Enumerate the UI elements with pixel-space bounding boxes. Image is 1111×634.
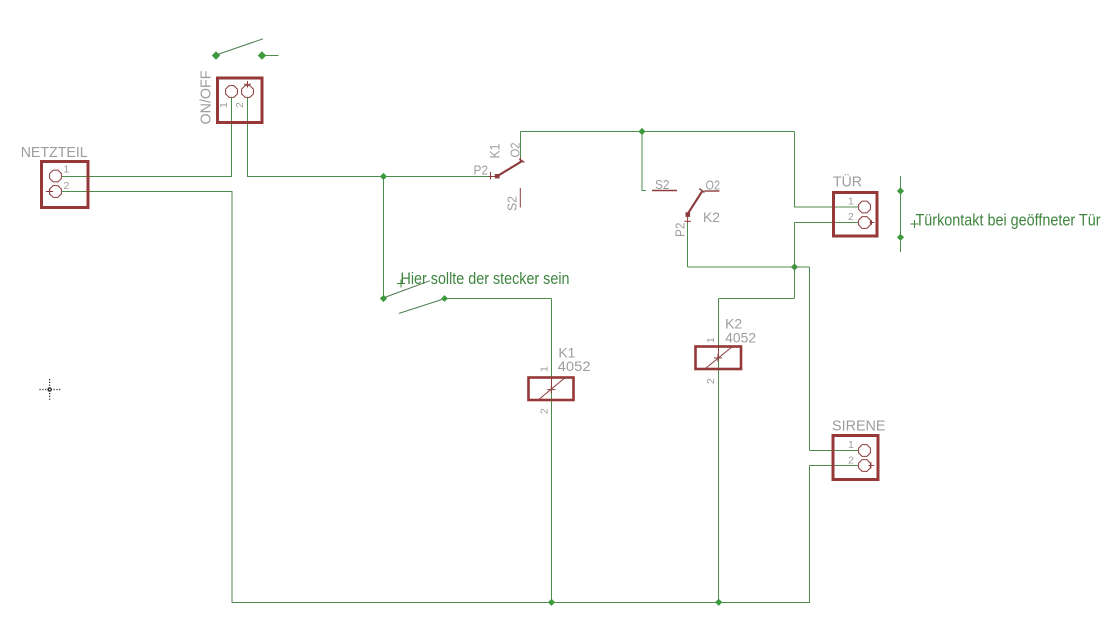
relay coil K1 pin stub bbox=[550, 378, 552, 391]
relay contact K2 pole stub bbox=[687, 217, 689, 224]
svg-text:K1: K1 bbox=[487, 143, 503, 158]
relay contact K1 hinge bbox=[495, 174, 500, 178]
wire into SIRENE pin1 bbox=[810, 450, 859, 452]
pin 2 cross mark bbox=[247, 81, 249, 88]
svg-text:2: 2 bbox=[848, 211, 854, 223]
relay coil K1 box bbox=[529, 378, 574, 401]
wire top net horizontal bbox=[521, 131, 795, 133]
pin 2 of ON/OFF bbox=[242, 86, 254, 98]
relay contact K1 lever bbox=[497, 161, 523, 177]
junction node at 642,131 bbox=[638, 128, 645, 135]
wire ON/OFF pin2 down bbox=[247, 98, 249, 177]
svg-text:TÜR: TÜR bbox=[833, 173, 862, 191]
svg-text:Hier sollte der stecker sein: Hier sollte der stecker sein bbox=[401, 270, 570, 288]
wire TUER pin2 left bbox=[795, 222, 859, 224]
svg-text:2: 2 bbox=[705, 378, 717, 384]
wire junction down to K2 S2 contact bbox=[641, 132, 643, 192]
relay coil K2 box bbox=[696, 347, 742, 370]
svg-text:1: 1 bbox=[538, 366, 550, 372]
wire ON/OFF pin1 down bbox=[231, 98, 233, 177]
door contact node bottom bbox=[897, 234, 904, 241]
connector SIRENE box bbox=[833, 436, 878, 480]
wire junction down jog bbox=[794, 267, 796, 299]
svg-text:1: 1 bbox=[848, 196, 854, 208]
wire NETZTEIL pin1 to ON/OFF pin1 bbox=[62, 176, 232, 178]
svg-text:2: 2 bbox=[848, 454, 854, 466]
svg-text:2: 2 bbox=[538, 408, 550, 414]
svg-text:2: 2 bbox=[64, 180, 70, 192]
door contact wire bbox=[900, 176, 902, 252]
wire bottom bus bbox=[232, 601, 810, 603]
relay contact K1 S2 stub bbox=[519, 188, 521, 208]
pin 2 of TUER bbox=[859, 217, 871, 229]
svg-text:2: 2 bbox=[234, 102, 246, 108]
pin 2 cross mark bbox=[869, 465, 875, 467]
relay contact K2 S2 stub bbox=[652, 190, 677, 192]
junction node at plug switch left pin bbox=[380, 295, 387, 302]
relay contact K1 O2 stub bbox=[519, 158, 521, 164]
svg-text:SIRENE: SIRENE bbox=[832, 419, 886, 435]
switch S1 lever bbox=[218, 39, 264, 55]
svg-text:P2: P2 bbox=[474, 164, 489, 178]
annotation origin cross bbox=[911, 223, 919, 225]
relay coil K1 diagonal bbox=[538, 377, 566, 400]
switch S1 right pin dot bbox=[258, 51, 266, 59]
svg-text:S2: S2 bbox=[506, 196, 520, 211]
junction node at 383,176 bbox=[380, 173, 387, 180]
switch S1 left pin dot bbox=[212, 51, 220, 59]
relay contact K1 pole stub bbox=[488, 176, 495, 178]
door contact node top bbox=[897, 187, 904, 194]
connector TUER box bbox=[834, 193, 878, 237]
wire NETZTEIL pin2 down to bottom bus bbox=[231, 192, 233, 603]
wire into SIRENE pin2 bbox=[810, 465, 859, 467]
relay contact K2 lever bbox=[688, 191, 703, 214]
relay coil K1 origin cross bbox=[547, 389, 555, 391]
pin 2 of SIRENE bbox=[859, 460, 871, 472]
svg-text:1: 1 bbox=[705, 337, 717, 343]
relay coil K2 pin stub bbox=[718, 347, 720, 359]
relay contact K1 lever tip bbox=[519, 159, 524, 163]
connector ON/OFF box bbox=[218, 78, 263, 123]
svg-text:4052: 4052 bbox=[558, 358, 591, 374]
svg-text:ON/OFF: ON/OFF bbox=[199, 70, 215, 124]
svg-text:O2: O2 bbox=[509, 142, 523, 157]
switch S1 right stub bbox=[266, 55, 279, 57]
junction node K1 coil at bus bbox=[548, 599, 555, 606]
wire ON/OFF pin2 to K1 pole bbox=[248, 176, 490, 178]
wire junction right bbox=[795, 266, 810, 268]
wire junction down to plug switch bbox=[383, 177, 385, 299]
svg-text:K2: K2 bbox=[703, 209, 720, 225]
wire down to SIRENE pin1 bbox=[809, 267, 811, 451]
pin 1 of SIRENE bbox=[859, 445, 871, 457]
wire bus up to SIRENE pin2 bbox=[809, 466, 811, 603]
svg-text:1: 1 bbox=[848, 439, 854, 451]
wire top net down to TUER pin1 bbox=[794, 132, 796, 208]
wire plug switch right pin to K1 coil bbox=[445, 298, 552, 300]
wire K2 pole up bbox=[687, 223, 689, 267]
svg-text:O2: O2 bbox=[706, 179, 721, 193]
pin 2 cross mark bbox=[870, 222, 875, 224]
wire junction left to K2 pole bbox=[688, 266, 795, 268]
junction node at 794,267 bbox=[791, 263, 798, 270]
pin 2 cross mark bbox=[46, 191, 53, 193]
plug switch lever B bbox=[399, 299, 444, 313]
connector NETZTEIL box bbox=[42, 162, 89, 208]
pin 2 of NETZTEIL bbox=[50, 186, 62, 198]
svg-text:1: 1 bbox=[64, 164, 70, 176]
pin 1 of TUER bbox=[859, 201, 871, 213]
pin 1 of ON/OFF bbox=[226, 86, 238, 98]
wire TUER pin2 down to junction bbox=[794, 223, 796, 268]
wire down through K2 coil to bus bbox=[718, 299, 720, 603]
pin 1 of NETZTEIL bbox=[50, 170, 62, 182]
wire into TUER pin1 bbox=[795, 206, 859, 208]
svg-text:S2: S2 bbox=[655, 178, 670, 192]
relay coil K2 origin cross bbox=[714, 357, 722, 359]
svg-text:4052: 4052 bbox=[725, 330, 756, 346]
svg-text:1: 1 bbox=[218, 102, 230, 108]
relay contact K2 hinge bbox=[686, 212, 691, 217]
svg-text:NETZTEIL: NETZTEIL bbox=[21, 145, 88, 161]
origin crosshair bbox=[40, 379, 61, 401]
svg-text:P2: P2 bbox=[674, 222, 688, 237]
plug switch right pin dot bbox=[441, 295, 448, 302]
wire K1 O2 contact up bbox=[520, 132, 522, 160]
plug switch lever A bbox=[385, 281, 431, 298]
svg-text:Türkontakt bei geöffneter Tür: Türkontakt bei geöffneter Tür bbox=[916, 212, 1101, 230]
relay contact K2 O2 stub bbox=[704, 190, 719, 192]
relay contact K2 lever tip bbox=[699, 189, 704, 193]
relay coil K2 diagonal bbox=[705, 347, 733, 369]
wire down through K1 coil to bus bbox=[551, 299, 553, 603]
wire NETZTEIL pin2 right bbox=[62, 191, 233, 193]
annotation origin cross bbox=[397, 283, 405, 285]
junction node K2 coil at bus bbox=[715, 599, 722, 606]
